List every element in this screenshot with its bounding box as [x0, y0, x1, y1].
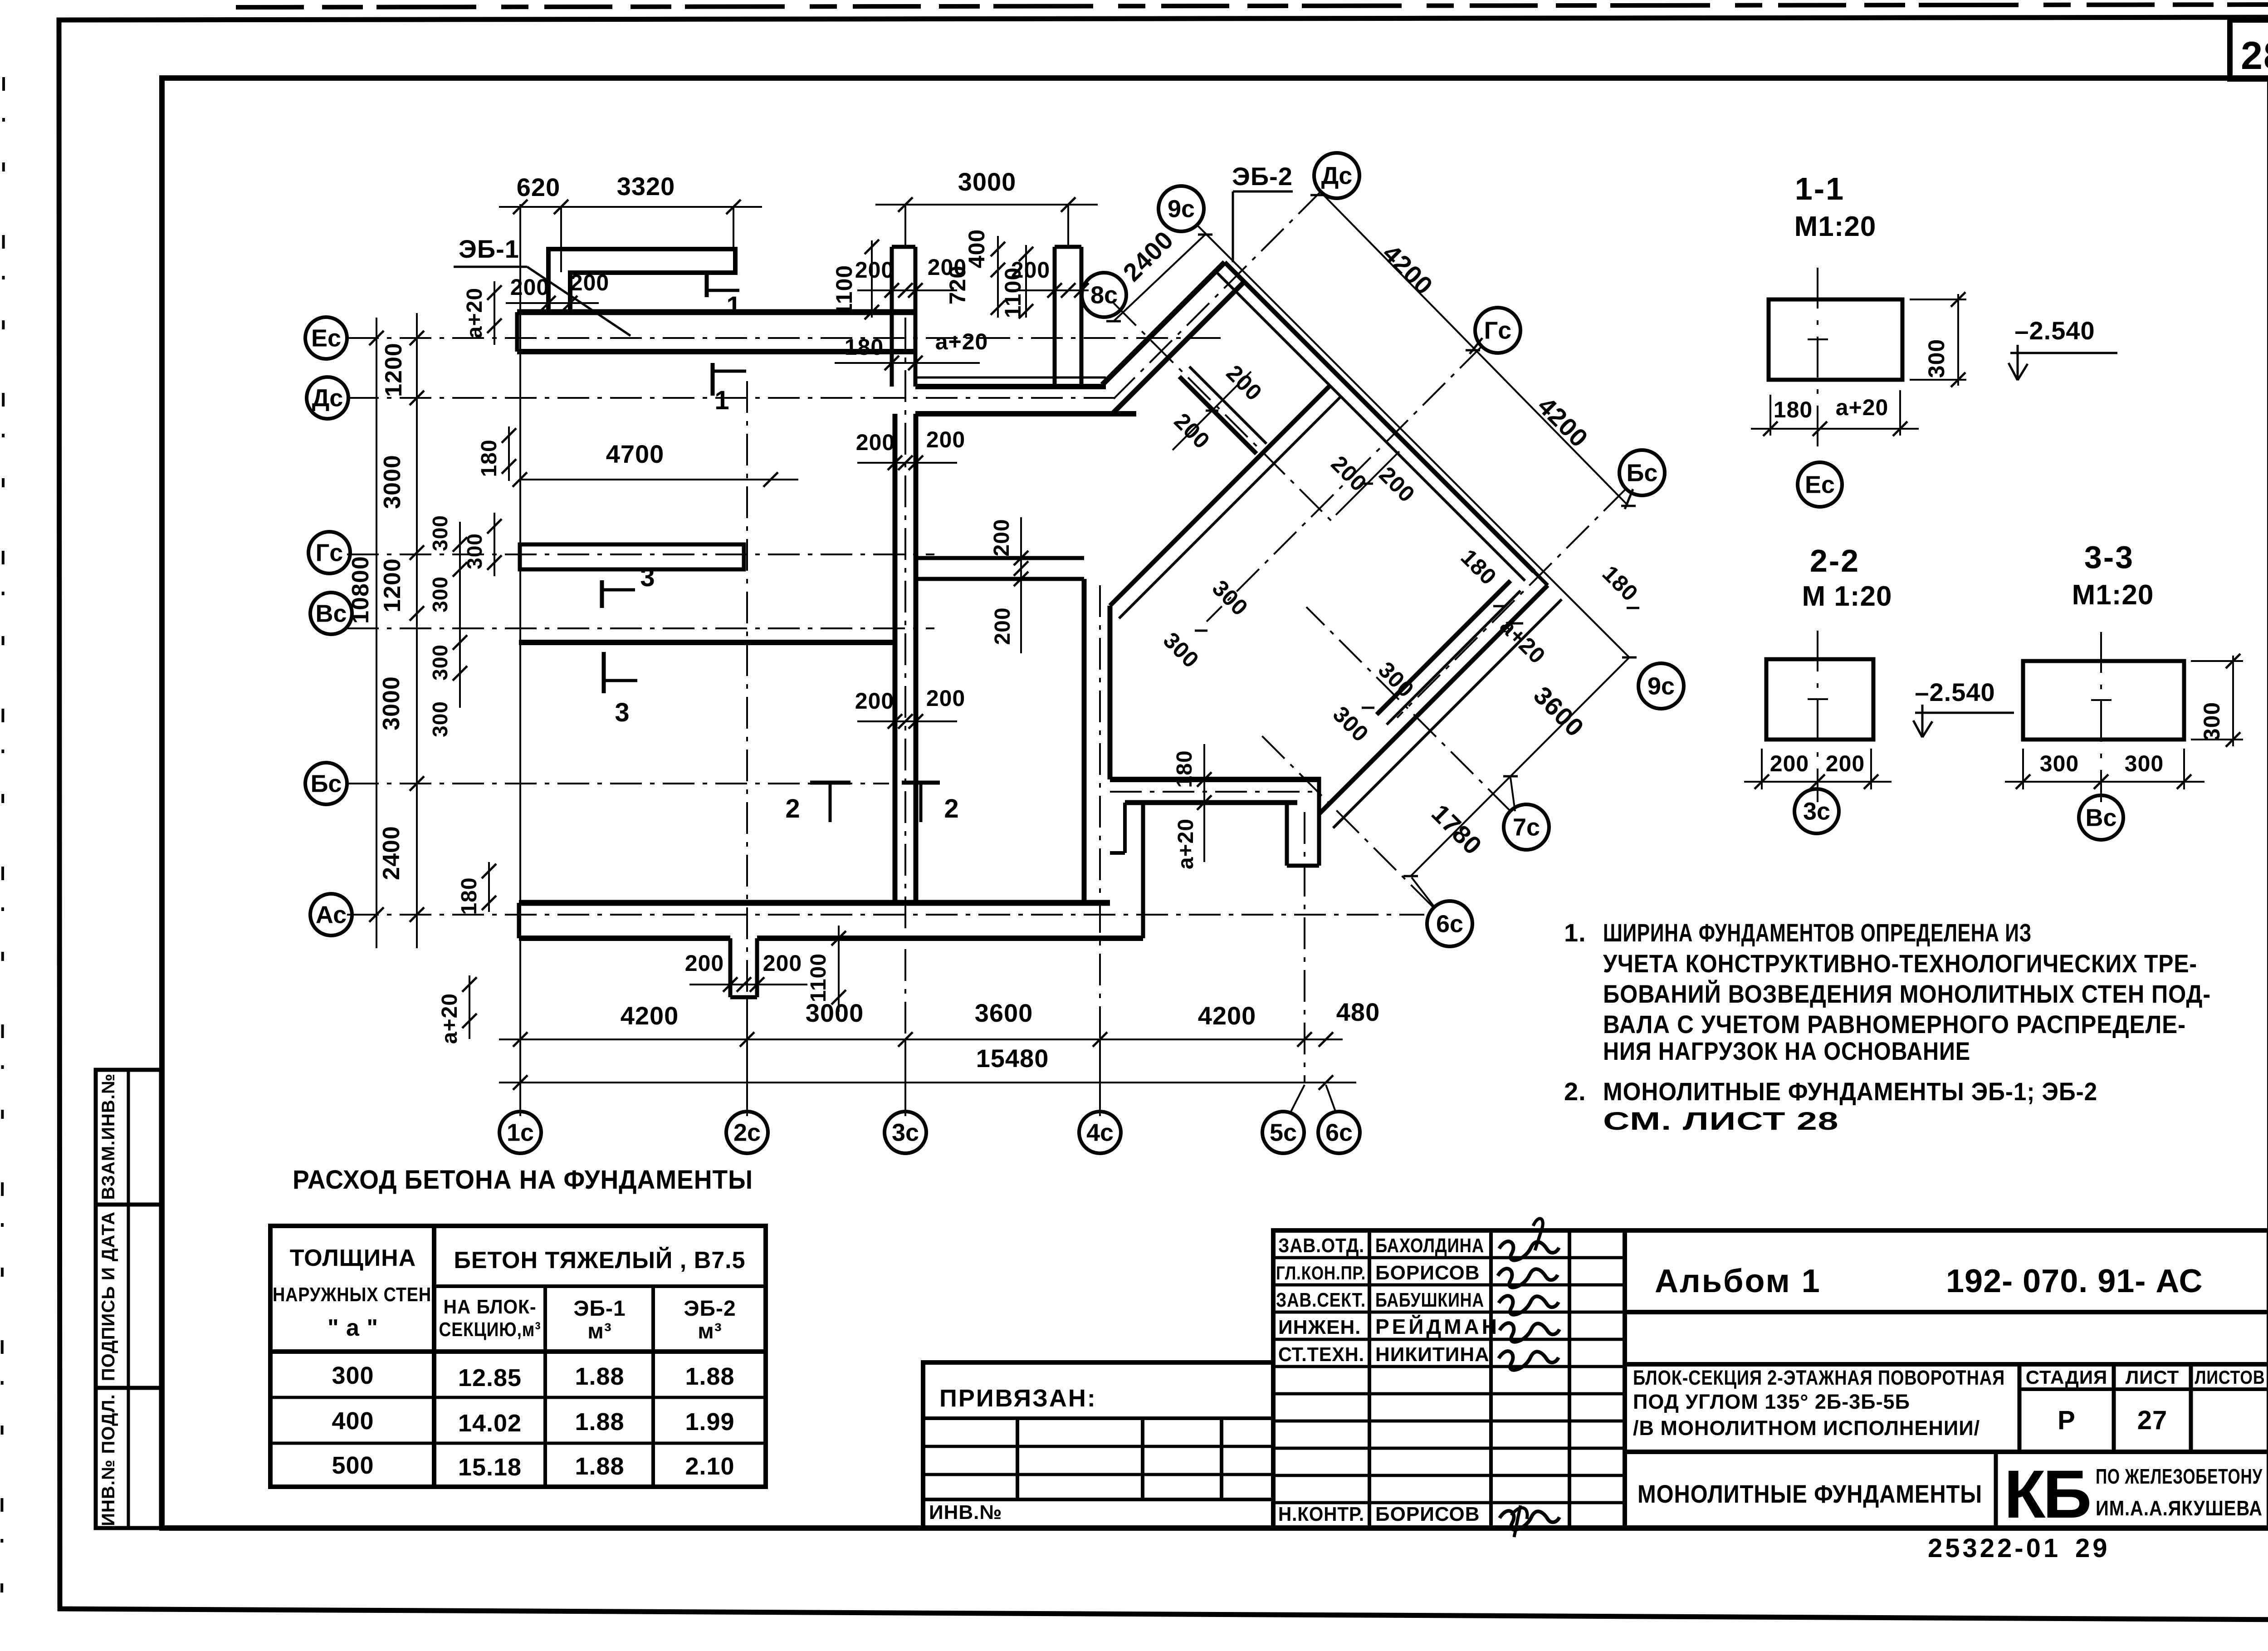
column circle 6с with bent leader — [1326, 1085, 1336, 1112]
wall stub on 3с above top wall — [890, 247, 894, 387]
dim 4700 above Гс bar — [520, 479, 798, 480]
svg-text:ЭБ-1: ЭБ-1 — [573, 1297, 626, 1321]
svg-text:180: 180 — [457, 877, 481, 915]
svg-text:15.18: 15.18 — [458, 1454, 522, 1481]
wing interior wall IW3 (along 8с diag) — [1179, 377, 1256, 454]
svg-text:3с: 3с — [1803, 798, 1830, 825]
svg-text:8с: 8с — [1090, 281, 1118, 309]
left stamp strip — [96, 1070, 161, 1528]
top dim 3000 between stubs — [875, 204, 1098, 206]
diagonal circle 9с (bottom) — [1638, 663, 1684, 709]
svg-text:РАСХОД БЕТОНА НА ФУНДАМЕНТЫ: РАСХОД БЕТОНА НА ФУНДАМЕНТЫ — [293, 1165, 753, 1195]
section 1-1 axis line — [1817, 268, 1818, 455]
svg-text:Бс: Бс — [311, 770, 342, 797]
wall band on axis Ес (top wall, left part) — [517, 309, 915, 315]
svg-text:М1:20: М1:20 — [1794, 211, 1877, 242]
section 1-1 footing rectangle — [1769, 299, 1902, 380]
dim line for wing Гс wall 200s — [1336, 451, 1399, 515]
privyazan header line — [923, 1416, 1273, 1420]
svg-text:180: 180 — [1774, 397, 1813, 422]
svg-text:3: 3 — [615, 698, 630, 727]
dim 200|200 on Гс wall right (rotated) — [1020, 517, 1022, 653]
dim 200|200 at 2с protrusion — [689, 984, 807, 985]
svg-text:29: 29 — [2075, 1533, 2110, 1563]
wing east corner step — [1534, 572, 1548, 585]
svg-text:Бс: Бс — [1627, 459, 1658, 486]
privyazan rows — [923, 1445, 1273, 1448]
svg-text:ИНВ.№: ИНВ.№ — [929, 1501, 1002, 1524]
dim 400/720 vertical right of ЭБ-1 — [997, 236, 999, 318]
svg-text:500: 500 — [332, 1452, 374, 1479]
protrusion below Ас wall at 2с — [728, 938, 733, 997]
svg-text:ИМ.А.А.ЯКУШЕВА: ИМ.А.А.ЯКУШЕВА — [2096, 1496, 2263, 1520]
svg-text:200: 200 — [856, 430, 895, 455]
axis circle Бс — [305, 763, 347, 804]
svg-text:200: 200 — [928, 255, 967, 280]
bottom dim line spans — [499, 1039, 1343, 1040]
dim 200|200 at stub 3с top — [857, 289, 957, 291]
svg-text:СТ.ТЕХН.: СТ.ТЕХН. — [1278, 1343, 1364, 1366]
axis circle Ес — [305, 317, 347, 359]
svg-text:ВАЛА С УЧЕТОМ РАВНОМЕРНОГО: ВАЛА С УЧЕТОМ РАВНОМЕРНОГО РАСПРЕДЕЛЕ- — [1603, 1010, 2186, 1039]
diagonal circle Гс — [1475, 308, 1520, 353]
svg-text:180: 180 — [845, 334, 884, 360]
svg-text:3с: 3с — [892, 1119, 919, 1146]
column circle 4с — [1079, 1112, 1121, 1153]
svg-text:БАХОЛДИНА: БАХОЛДИНА — [1375, 1235, 1484, 1257]
svg-text:200: 200 — [926, 427, 965, 452]
svg-text:10800: 10800 — [347, 556, 374, 624]
svg-text:300: 300 — [428, 644, 452, 681]
section mark 2 left — [810, 781, 850, 785]
svg-text:БОРИСОВ: БОРИСОВ — [1375, 1262, 1480, 1284]
svg-text:МОНОЛИТНЫЕ ФУНДАМЕНТЫ ЭБ-1;: МОНОЛИТНЫЕ ФУНДАМЕНТЫ ЭБ-1; ЭБ-2 — [1603, 1077, 2097, 1106]
svg-text:480: 480 — [1336, 998, 1380, 1026]
svg-text:9с: 9с — [1168, 195, 1195, 222]
section 1-1 circle Ес — [1798, 462, 1842, 507]
diagonal circle Бс — [1619, 450, 1665, 495]
bottom total dim 15480 — [499, 1082, 1356, 1083]
svg-text:300: 300 — [332, 1362, 374, 1389]
diagonal circle 8с — [1082, 273, 1126, 317]
column circle 1с — [499, 1112, 541, 1153]
diagonal axis 8с dash-dot — [1114, 303, 1334, 523]
diagonal circle 7с — [1504, 804, 1549, 850]
svg-text:1: 1 — [726, 291, 741, 321]
wall band top right part (Ес to wing) — [915, 377, 1106, 379]
dim 1100 left of stub 3с — [871, 240, 873, 318]
svg-text:ШИРИНА ФУНДАМЕНТОВ ОПРЕДЕЛЕН: ШИРИНА ФУНДАМЕНТОВ ОПРЕДЕЛЕНА ИЗ — [1603, 918, 2032, 947]
svg-text:1.88: 1.88 — [685, 1363, 734, 1390]
axis Ес dash-dot line — [347, 337, 1225, 339]
dim 200/200 at ЭБ-1 left — [506, 302, 599, 304]
wall band on Бс right part — [1110, 777, 1319, 782]
section mark 3 upper — [600, 580, 604, 608]
title block main divider — [1623, 1230, 1627, 1528]
svg-text:7с: 7с — [1513, 813, 1540, 841]
table column lines — [432, 1226, 436, 1487]
svg-text:3600: 3600 — [975, 999, 1033, 1027]
axis circle Дс — [307, 377, 348, 419]
svg-text:а+20: а+20 — [1174, 818, 1198, 869]
svg-text:УЧЕТА КОНСТРУКТИВНО-ТЕХНОЛОГИ: УЧЕТА КОНСТРУКТИВНО-ТЕХНОЛОГИЧЕСКИХ ТРЕ- — [1603, 949, 2197, 978]
left dim line (axis spacings) — [416, 313, 418, 948]
svg-text:4200: 4200 — [621, 1001, 679, 1030]
svg-text:1.88: 1.88 — [575, 1408, 624, 1435]
svg-text:ЗАВ.СЕКТ.: ЗАВ.СЕКТ. — [1276, 1289, 1366, 1311]
dim 1100 at protrusion — [838, 926, 840, 1012]
svg-text:300: 300 — [2040, 751, 2079, 776]
signatures — [1499, 1241, 1559, 1260]
svg-text:Дс: Дс — [312, 384, 343, 412]
svg-text:1100: 1100 — [807, 953, 831, 1002]
axis Бс dash-dot line — [347, 783, 889, 784]
privyazan block frame — [923, 1362, 1273, 1528]
diagonal dim line Дс-Гс-Бс (4200/4200) — [1321, 192, 1628, 506]
svg-text:НАРУЖНЫХ СТЕН: НАРУЖНЫХ СТЕН — [273, 1284, 431, 1306]
section 3-3 axis line — [2100, 632, 2102, 802]
svg-text:ТОЛЩИНА: ТОЛЩИНА — [290, 1245, 416, 1271]
svg-text:300: 300 — [1924, 339, 1949, 378]
diagonal circle Дс — [1314, 153, 1359, 198]
svg-text:192- 070. 91- АС: 192- 070. 91- АС — [1946, 1263, 2203, 1299]
svg-text:НА БЛОК-: НА БЛОК- — [444, 1296, 537, 1318]
section 3-3 footing rectangle — [2023, 661, 2184, 740]
diagonal circle 6с — [1427, 901, 1472, 946]
title stage columns — [2018, 1364, 2022, 1452]
svg-text:НИКИТИНА: НИКИТИНА — [1375, 1343, 1490, 1366]
dim 180 / а+20 on Бс right band — [1203, 744, 1205, 862]
svg-text:9с: 9с — [1647, 672, 1675, 700]
svg-text:БЛОК-СЕКЦИЯ 2-ЭТАЖНАЯ ПОВОРОТН: БЛОК-СЕКЦИЯ 2-ЭТАЖНАЯ ПОВОРОТНАЯ — [1633, 1366, 2005, 1389]
section 1-1 dim 300 — [1957, 294, 1959, 386]
svg-text:Альбом 1: Альбом 1 — [1655, 1263, 1821, 1299]
svg-text:200: 200 — [570, 270, 609, 295]
diagonal circle 9с (top) — [1158, 186, 1204, 231]
svg-text:1.: 1. — [1564, 918, 1586, 947]
svg-text:–2.540: –2.540 — [1915, 678, 1995, 706]
title block outer — [1273, 1230, 2268, 1528]
svg-text:м³: м³ — [698, 1319, 722, 1343]
svg-text:3320: 3320 — [617, 172, 675, 201]
section 3-3 circle Вс — [2079, 795, 2123, 840]
top dim line 620 / 3320 — [499, 206, 762, 208]
diagonal axis 6с dash-dot — [1261, 735, 1433, 907]
svg-text:3-3: 3-3 — [2084, 539, 2134, 575]
svg-text:200: 200 — [855, 257, 894, 283]
svg-text:12.85: 12.85 — [458, 1364, 522, 1391]
wing upper-right wall WW2 (long 45 wall) — [1225, 262, 1534, 572]
roles table rows — [1273, 1256, 1625, 1259]
svg-text:15480: 15480 — [976, 1044, 1049, 1073]
svg-text:2400: 2400 — [378, 826, 405, 880]
dim 300/300 column left of plan (Гс-Вс) — [459, 522, 461, 708]
sheet number box 28 — [2230, 20, 2268, 79]
svg-text:ИНЖЕН.: ИНЖЕН. — [1278, 1316, 1361, 1338]
svg-text:5с: 5с — [1270, 1119, 1297, 1146]
section 3-3 dim 300 right — [2232, 656, 2234, 746]
svg-text:1100: 1100 — [831, 265, 857, 316]
dim 1100 right — [1025, 245, 1027, 318]
svg-text:27: 27 — [2137, 1406, 2168, 1435]
svg-text:СТАДИЯ: СТАДИЯ — [2026, 1367, 2107, 1388]
svg-text:1: 1 — [714, 386, 729, 415]
svg-text:Гс: Гс — [1484, 317, 1512, 344]
svg-text:ЛИСТ: ЛИСТ — [2126, 1367, 2180, 1388]
svg-text:ПОДПИСЬ И ДАТА: ПОДПИСЬ И ДАТА — [98, 1211, 118, 1381]
svg-text:2: 2 — [944, 794, 959, 823]
axis circle Гс — [308, 532, 350, 573]
axis Гс dash-dot line — [347, 554, 934, 555]
wing upper-left wall band WW1 — [1102, 262, 1225, 385]
svg-text:Р: Р — [2058, 1406, 2076, 1435]
axis Ас dash-dot line — [347, 914, 1424, 916]
axis Дс dash-dot line — [347, 397, 1116, 399]
svg-text:3000: 3000 — [806, 999, 864, 1027]
svg-text:а+20: а+20 — [935, 329, 988, 354]
svg-text:3000: 3000 — [958, 167, 1017, 196]
svg-text:3000: 3000 — [379, 455, 406, 509]
svg-text:ПО ЖЕЛЕЗОБЕТОНУ: ПО ЖЕЛЕЗОБЕТОНУ — [2096, 1465, 2263, 1488]
vertical axis 2с dash-dot — [746, 381, 748, 1111]
dim 300 above Вс wall near 1с — [494, 513, 495, 576]
svg-text:14.02: 14.02 — [458, 1410, 522, 1437]
diagonal axis 7с dash-dot — [1306, 607, 1510, 811]
svg-text:ИНВ.№ ПОДЛ.: ИНВ.№ ПОДЛ. — [98, 1394, 118, 1526]
wall on axis 3с (vertical) — [893, 414, 898, 903]
axis circle Вс — [310, 593, 352, 634]
svg-text:НИЯ НАГРУЗОК НА ОСНОВАНИЕ: НИЯ НАГРУЗОК НА ОСНОВАНИЕ — [1603, 1037, 1970, 1065]
left total dim 10800 — [376, 318, 377, 948]
svg-text:СЕКЦИЮ,м³: СЕКЦИЮ,м³ — [439, 1318, 541, 1341]
svg-text:25322-01: 25322-01 — [1928, 1533, 2061, 1563]
svg-text:" а ": " а " — [327, 1315, 378, 1341]
svg-text:БОВАНИЙ ВОЗВЕДЕНИЯ МОНОЛИТНЫ: БОВАНИЙ ВОЗВЕДЕНИЯ МОНОЛИТНЫХ СТЕН ПОД- — [1603, 980, 2211, 1008]
title row blok-sekcia top — [1625, 1362, 2268, 1367]
svg-text:200: 200 — [685, 950, 724, 976]
monolithic element ЭБ-1 (channel above Ес wall) — [548, 249, 735, 312]
svg-text:Ас: Ас — [316, 901, 347, 928]
stub below Бс band at 5с/6с — [1285, 803, 1289, 866]
diagonal axis Гс dash-dot — [1207, 346, 1482, 622]
svg-text:300: 300 — [428, 701, 452, 737]
svg-text:200: 200 — [926, 686, 965, 711]
svg-text:МОНОЛИТНЫЕ ФУНДАМЕНТЫ: МОНОЛИТНЫЕ ФУНДАМЕНТЫ — [1637, 1480, 1982, 1508]
svg-text:1.99: 1.99 — [685, 1408, 734, 1435]
scan edge artifacts top — [236, 5, 2268, 7]
svg-text:180: 180 — [477, 439, 501, 477]
section 2-2 bottom dims 200|200 — [1744, 781, 1892, 783]
svg-text:4700: 4700 — [606, 440, 665, 468]
svg-text:300: 300 — [2199, 702, 2224, 741]
svg-text:м³: м³ — [587, 1319, 612, 1343]
svg-text:СМ. ЛИСТ 28: СМ. ЛИСТ 28 — [1603, 1107, 1839, 1135]
section mark 2 right — [902, 781, 940, 785]
axis dash-dot in Бс right band — [1110, 791, 1315, 793]
svg-text:ПРИВЯЗАН:: ПРИВЯЗАН: — [939, 1385, 1097, 1412]
svg-text:400: 400 — [332, 1407, 374, 1435]
svg-text:М1:20: М1:20 — [2072, 579, 2154, 611]
svg-text:ВЗАМ.ИНВ.№: ВЗАМ.ИНВ.№ — [98, 1073, 118, 1200]
svg-text:РЕЙДМАН: РЕЙДМАН — [1375, 1315, 1500, 1338]
svg-text:БЕТОН ТЯЖЕЛЫЙ , В7.5: БЕТОН ТЯЖЕЛЫЙ , В7.5 — [454, 1247, 745, 1274]
axis circle Ас — [310, 894, 352, 936]
svg-text:6с: 6с — [1325, 1119, 1353, 1146]
svg-text:300: 300 — [463, 533, 486, 569]
step below Бс band left end — [1123, 803, 1127, 853]
svg-text:2-2: 2-2 — [1810, 543, 1860, 578]
svg-text:200: 200 — [1770, 751, 1809, 776]
svg-text:4с: 4с — [1086, 1119, 1114, 1146]
svg-text:200: 200 — [1011, 257, 1050, 283]
svg-text:ЛИСТОВ: ЛИСТОВ — [2195, 1367, 2265, 1388]
svg-text:а+20: а+20 — [463, 288, 487, 338]
svg-text:1.88: 1.88 — [575, 1453, 624, 1480]
svg-text:200: 200 — [1826, 751, 1865, 776]
table header split — [434, 1284, 766, 1288]
svg-text:200: 200 — [855, 688, 894, 714]
section 1-1 bottom dims 180 / а+20 — [1751, 428, 1919, 430]
roles table columns — [1368, 1230, 1371, 1528]
diagonal axis Бс dash-dot — [1397, 489, 1626, 718]
svg-text:БОРИСОВ: БОРИСОВ — [1375, 1503, 1480, 1525]
diagonal axis 9с line — [1198, 225, 1629, 657]
svg-text:Вс: Вс — [315, 600, 347, 627]
vertical axis 1с line — [519, 204, 521, 1111]
svg-text:1200: 1200 — [379, 558, 406, 612]
concrete table frame — [270, 1226, 766, 1487]
section 2-2 circle 3с — [1794, 789, 1839, 833]
svg-text:Дс: Дс — [1321, 162, 1353, 189]
column circle 5с with bent leader — [1290, 1085, 1305, 1112]
wall stub at x2355 above top wall — [1053, 247, 1057, 387]
svg-text:1200: 1200 — [381, 343, 407, 397]
svg-text:6с: 6с — [1436, 910, 1463, 937]
svg-text:ГЛ.КОН.ПР.: ГЛ.КОН.ПР. — [1276, 1262, 1366, 1284]
svg-text:200: 200 — [991, 607, 1015, 645]
dim а+20 and 180 left of Ес wall — [494, 281, 495, 345]
interior wall on Гс between 3с and 4с — [916, 556, 1084, 560]
dim 200|200 on 3с wall mid — [857, 462, 957, 464]
vertical axis 4с dash-dot — [1099, 585, 1101, 1111]
svg-text:а+20: а+20 — [1836, 395, 1889, 420]
title bottom row — [1625, 1450, 2268, 1454]
column circle 2с — [726, 1112, 768, 1153]
svg-text:200: 200 — [990, 519, 1014, 556]
wing interior wall IW1 (along Гс diag) — [1110, 386, 1330, 606]
svg-text:400: 400 — [964, 229, 989, 268]
svg-text:3000: 3000 — [378, 676, 405, 730]
step between top wall bands — [914, 352, 918, 387]
svg-text:Гс: Гс — [316, 539, 343, 566]
wall bar on axis Гс (4700 bar) — [520, 544, 744, 569]
svg-text:Вс: Вс — [2085, 804, 2116, 831]
dim 200|200 on 3с wall near Бс — [857, 720, 957, 722]
wing interior wall IW2 (along Бс diag) — [1377, 581, 1510, 715]
diagonal axis Дс dash-dot — [1114, 191, 1321, 399]
scan edge artifacts left — [2, 77, 4, 1647]
svg-text:180: 180 — [1173, 750, 1197, 788]
column circle 3с — [885, 1112, 926, 1153]
dim line for wing IW3 200s — [1173, 372, 1251, 450]
wall band on axis Вс — [519, 640, 895, 645]
svg-text:КБ: КБ — [2004, 1456, 2090, 1532]
svg-text:2.10: 2.10 — [685, 1453, 734, 1480]
svg-text:М 1:20: М 1:20 — [1802, 581, 1892, 612]
svg-text:ЭБ-2: ЭБ-2 — [684, 1297, 736, 1321]
svg-text:ЗАВ.ОТД.: ЗАВ.ОТД. — [1278, 1235, 1364, 1257]
vertical axis 3с dash-dot — [904, 318, 906, 1111]
svg-text:4200: 4200 — [1198, 1001, 1256, 1030]
svg-text:ЭБ-2: ЭБ-2 — [1232, 162, 1293, 191]
svg-text:2: 2 — [785, 794, 800, 823]
privyazan verticals — [1016, 1418, 1019, 1499]
svg-text:/В МОНОЛИТНОМ ИСПОЛНЕНИИ/: /В МОНОЛИТНОМ ИСПОЛНЕНИИ/ — [1633, 1416, 1980, 1440]
wing lower-right wall WW3 — [1319, 585, 1548, 814]
svg-text:300: 300 — [428, 576, 452, 612]
dim 180 / а+20 lower left near Ас — [488, 862, 490, 912]
svg-text:Ес: Ес — [1805, 471, 1835, 498]
svg-text:1-1: 1-1 — [1795, 171, 1845, 206]
svg-text:28: 28 — [2241, 34, 2268, 78]
svg-text:620: 620 — [517, 173, 560, 201]
svg-text:300: 300 — [2125, 751, 2164, 776]
svg-text:300: 300 — [428, 515, 452, 551]
svg-text:БАБУШКИНА: БАБУШКИНА — [1375, 1289, 1484, 1311]
section 2-2 axis line — [1817, 631, 1818, 802]
dim 200 at stub x2355 — [1016, 289, 1089, 291]
section mark 1 lower — [711, 363, 715, 396]
svg-text:2с: 2с — [733, 1119, 761, 1146]
vertical axis 5с dash-dot — [1304, 812, 1305, 1083]
svg-text:200: 200 — [763, 950, 802, 976]
svg-text:1с: 1с — [507, 1119, 534, 1146]
dim 180 / а+20 below top wall right — [835, 362, 980, 364]
wall on axis 4с (vertical) — [1082, 579, 1087, 903]
section 2-2 footing rectangle — [1766, 659, 1873, 740]
wall band on axis Ас (bottom wall) — [519, 900, 1110, 906]
svg-text:Н.КОНТР.: Н.КОНТР. — [1278, 1503, 1364, 1525]
svg-text:а+20: а+20 — [438, 993, 462, 1044]
svg-text:–2.540: –2.540 — [2014, 316, 2095, 345]
svg-text:Ес: Ес — [311, 324, 341, 352]
section 3-3 bottom dims 300|300 — [2005, 781, 2204, 783]
svg-text:3: 3 — [640, 563, 655, 592]
axis Вс dash-dot line — [347, 627, 934, 629]
dim line 2400 between 8с and 9с — [1114, 235, 1205, 321]
dim 3600 / 1780 lower right — [1411, 657, 1629, 876]
svg-text:ПОД УГЛОМ 135° 2Б-3Б-5Б: ПОД УГЛОМ 135° 2Б-3Б-5Б — [1633, 1390, 1910, 1413]
section mark 3 lower — [602, 652, 606, 693]
section mark 1 upper — [705, 271, 709, 297]
svg-text:2.: 2. — [1564, 1077, 1586, 1106]
svg-text:1.88: 1.88 — [575, 1363, 624, 1390]
title header Альбом 1 192-070.91-АС — [1625, 1310, 2268, 1314]
svg-text:ЭБ-1: ЭБ-1 — [459, 235, 519, 263]
